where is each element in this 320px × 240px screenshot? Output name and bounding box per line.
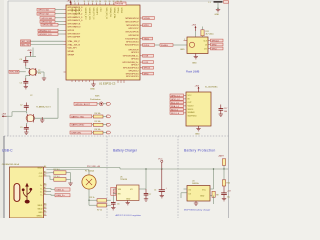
U4 left wire [181,189,187,198]
svg-text:GND: GND [215,14,220,16]
svg-text:WS2812_DI: WS2812_DI [39,31,51,33]
global label IO19 [143,61,154,64]
global label MTDI [143,24,152,27]
svg-text:LNA_IN: LNA_IN [78,8,81,15]
svg-text:R4 10k: R4 10k [95,113,101,115]
U5 internal pin names [118,189,133,201]
wires flash top [196,27,203,38]
resistor R10 far right [222,169,230,186]
svg-text:UART0_TXD: UART0_TXD [71,115,84,118]
global label SPID [143,72,154,75]
svg-text:GPIO18/USB_D-: GPIO18/USB_D- [123,56,139,58]
ground cap C8 [222,199,226,201]
global label RXD0 [143,44,155,47]
svg-text:32k: 32k [38,73,41,75]
capacitor C1 polarized [154,169,168,196]
svg-text:XL-1615RGBC: XL-1615RGBC [205,87,218,89]
svg-text:29: 29 [105,1,107,3]
svg-text:10u: 10u [227,197,230,199]
svg-text:SBU1: SBU1 [38,205,43,207]
svg-text:GND: GND [192,63,197,65]
svg-text:GPIO19/USB_D+: GPIO19/USB_D+ [122,62,139,64]
svg-text:U1 ESP32-C3: U1 ESP32-C3 [99,82,116,86]
wire VBUS rail top [47,168,229,170]
power +3V3 above crystal Y2 [27,50,32,57]
svg-text:SPIHD: SPIHD [68,51,75,53]
svg-text:GND: GND [180,49,185,51]
svg-text:A7: A7 [44,186,46,189]
svg-text:+3V3: +3V3 [27,50,31,52]
svg-text:SPICS0/GPIO14: SPICS0/GPIO14 [123,68,139,70]
J1 right pin stubs [44,168,47,216]
svg-text:GND: GND [126,198,131,200]
svg-text:GPIO9 / BOOT: GPIO9 / BOOT [75,104,90,106]
svg-text:Y1 ABM8-272-T3: Y1 ABM8-272-T3 [36,106,51,109]
ground under MCU [90,83,96,91]
svg-text:SPID: SPID [144,74,149,76]
svg-text:USB-C: USB-C [2,149,13,153]
svg-text:7: 7 [78,1,79,3]
ground under flash [192,54,198,65]
svg-text:SBU2: SBU2 [38,209,43,211]
ground under U4 [194,201,198,205]
global label U3 pin5 [170,108,184,111]
svg-text:+BATT: +BATT [218,155,225,158]
svg-text:C4: C4 [20,59,22,61]
power +3V3 above MCU [67,1,72,5]
global label MIC_SCK [21,40,64,43]
resistor R3 series [90,197,111,202]
svg-text:VDD3P3_CPU: VDD3P3_CPU [88,8,90,21]
svg-text:CC2: CC2 [39,176,43,178]
svg-text:GPIO3 / A3: GPIO3 / A3 [41,17,52,20]
svg-text:GPIO_L1: GPIO_L1 [171,95,181,97]
svg-text:1: 1 [184,39,185,41]
svg-text:RXD0: RXD0 [144,45,150,47]
sheet top border [8,0,229,2]
svg-text:R10: R10 [227,183,230,185]
resistor R4 row2 [93,115,106,118]
sheet margin strip [0,0,4,218]
svg-text:GPIO16: GPIO16 [131,59,139,61]
wire from L1 [217,3,218,9]
U3 left pin stubs [184,95,187,113]
svg-text:B7: B7 [44,193,46,195]
ground crystal Y2 [42,78,46,80]
svg-text:R9: R9 [216,194,218,196]
svg-text:21: 21 [96,1,98,3]
wires crystal Y1 [7,88,59,125]
pushbutton SW1 [99,102,106,106]
svg-text:17: 17 [88,1,90,3]
resistor R2 5k1 CC2 [47,176,67,181]
resistor R9 right of U4 [212,191,219,197]
global label WS2812_DO [38,33,64,36]
hierarchical arrow row4 [107,131,111,134]
resistor R5 row3 [93,123,106,126]
svg-text:GND: GND [90,88,95,90]
svg-text:Pushbutton: Pushbutton [90,98,101,101]
power VCC symbol [158,159,163,170]
MCU U1 top pin stubs [72,3,122,6]
svg-text:SPID: SPID [212,44,217,46]
global label USB_D+ [47,194,71,198]
ground cap C6 [111,208,115,210]
net label box above MCU right [115,2,126,6]
svg-text:SCL_L3: SCL_L3 [171,102,179,104]
fuse F1 [82,175,96,189]
svg-text:SDIO0: SDIO0 [188,109,194,111]
svg-text:GPIO13: GPIO13 [131,52,139,54]
regulator U5 reference text [120,177,128,182]
MCU U1 top internal pin names (vertical) [71,8,123,21]
svg-text:SPICS: SPICS [144,68,151,70]
resistor R1 5k1 CC1 [47,169,67,174]
svg-text:A6: A6 [44,182,46,185]
global label IO9 to flash [155,44,188,47]
svg-text:VDDA_PLL: VDDA_PLL [109,8,112,18]
global label GPIO5 [41,23,64,26]
U4 internal pin names [188,189,206,197]
svg-text:SPID/GPIO16: SPID/GPIO16 [126,73,140,75]
svg-text:B6: B6 [44,190,46,192]
svg-text:GPIO10/IO10: GPIO10/IO10 [126,42,139,44]
crystal Y2 32.768kHz [29,68,41,76]
svg-text:MTDI/GPIO5: MTDI/GPIO5 [126,25,139,27]
svg-text:GPIO8/IO8: GPIO8/IO8 [128,35,139,37]
MCU U1 left pin stubs [64,10,67,72]
U3 internal pin names [188,95,198,117]
MCU U1 right pin stubs [140,18,143,74]
MCU U1 ESP32-C3 body [66,5,140,80]
wire from vertical label down [112,195,114,202]
svg-text:Flash 16MB: Flash 16MB [186,71,200,74]
svg-text:A5: A5 [44,170,46,173]
svg-text:+3V3: +3V3 [2,114,6,116]
svg-text:C1: C1 [154,190,156,192]
svg-text:GPIO7/IO7: GPIO7/IO7 [128,28,139,30]
svg-text:MIC_SD: MIC_SD [22,45,30,47]
flash U2 left pin [184,39,188,41]
svg-text:VDD_SPI: VDD_SPI [68,48,77,50]
svg-text:VDD_RTC_IO: VDD_RTC_IO [92,8,94,20]
ground flash left [180,41,187,52]
resistor R6 row4 [93,131,106,134]
hierarchical arrow row3 [107,123,111,126]
svg-text:XIN_32K: XIN_32K [10,72,19,74]
global label GPIO2 [37,12,64,15]
flash U2 right pin stubs [208,41,211,49]
svg-text:XTAL_32K_P: XTAL_32K_P [68,40,81,43]
capacitor C17 [219,105,228,115]
svg-text:SPIQ: SPIQ [212,48,217,50]
power +3V3 left arrow (main crystal) [2,114,7,118]
svg-text:+C8: +C8 [227,191,231,193]
USB-C connector J1 body [10,167,44,218]
USB-C shell pill [14,184,20,202]
svg-text:GPIO9/IO9: GPIO9/IO9 [128,50,139,52]
svg-text:RXD0/GPIO20: RXD0/GPIO20 [125,45,139,47]
svg-text:SPIWP: SPIWP [68,54,75,56]
svg-text:18: 18 [92,1,94,3]
svg-text:C3: C3 [20,127,22,129]
global label IO18 [143,54,154,57]
svg-text:MTDO/GPIO7: MTDO/GPIO7 [125,21,139,23]
section divider vertical charger / protection [177,136,179,218]
J1 pin numbers [44,165,46,216]
svg-text:VCC: VCC [188,95,193,97]
global label GPIO4 [40,20,64,23]
crystal Y1 40MHz [26,95,50,122]
wire below fuse [88,189,97,205]
capacitor C6 under label [111,203,119,208]
global label SPICS [143,66,154,69]
svg-text:F1 750mA: F1 750mA [85,170,94,173]
wires CC resistors to ground [66,173,71,183]
global label SPID flash [211,43,224,46]
ground top right [215,10,221,17]
svg-text:DW01A: DW01A [192,182,199,185]
global label GPIO3 [40,17,64,20]
svg-text:Battery Protection: Battery Protection [184,149,215,153]
svg-text:MIC_SCK: MIC_SCK [22,41,32,43]
capacitor C5 (32k bottom) [20,78,29,87]
svg-text:GPIO9/BOOT: GPIO9/BOOT [68,33,82,35]
svg-text:GPIO2 / A2: GPIO2 / A2 [38,13,49,16]
svg-text:A4: A4 [44,165,46,168]
ground under U5 [126,201,130,205]
svg-text:GPIO1 / A1: GPIO1 / A1 [38,9,49,12]
MCU U1 top pin numbers [71,1,123,3]
ground cap C1 [160,196,164,198]
svg-text:SPIQ/IO12: SPIQ/IO12 [128,70,139,72]
svg-text:C17: C17 [224,108,227,110]
svg-text:GPIO10/FSPI: GPIO10/FSPI [68,37,81,39]
global label U3 pin2 [170,98,184,101]
svg-text:USB_D+: USB_D+ [56,195,65,197]
svg-text:SHELL: SHELL [37,215,43,217]
battery protection IC U4 body [187,186,210,202]
global label U3 pin6 [170,112,184,115]
regulator U5 body [117,185,140,201]
svg-text:VDDIO: VDDIO [188,105,195,107]
svg-text:R6 10k: R6 10k [95,129,101,131]
resistor R11 pullup [201,30,214,36]
svg-text:VDD_SPI_33: VDD_SPI_33 [105,8,107,19]
svg-text:MTMS: MTMS [144,18,151,20]
section divider horizontal [4,135,229,137]
svg-text:SPIVQ: SPIVQ [117,8,119,14]
svg-text:TXD0/GPIO21: TXD0/GPIO21 [125,38,139,40]
svg-text:B5: B5 [44,174,46,176]
sheet right border [228,1,230,218]
global label MIC_SD [21,43,64,46]
svg-text:VDD3P3_RTC: VDD3P3_RTC [84,8,86,21]
section border left (USB-C) [3,136,5,218]
svg-text:R5 10k: R5 10k [95,121,101,123]
svg-text:C6: C6 [117,204,119,206]
label right of L1 [224,1,229,4]
MCU U1 left-side internal pin names [68,6,84,56]
capacitor C7 right of U5 [144,189,152,199]
hierarchical arrow row1 [107,102,111,105]
svg-text:B8: B8 [44,207,46,209]
svg-text:11: 11 [84,1,86,3]
svg-text:MTDI: MTDI [144,25,150,27]
svg-text:C7: C7 [149,194,151,196]
svg-text:GPIO6/MTCK: GPIO6/MTCK [68,23,81,25]
sheet left border [7,1,9,136]
svg-text:GND: GND [38,212,43,214]
svg-text:SPICLK/IO15: SPICLK/IO15 [126,76,139,78]
junction rail x161.8 [161,168,162,169]
crystal Y2 32k label RTC [9,70,26,73]
wires crystal Y2 [26,48,44,79]
svg-text:SDI/PWLD: SDI/PWLD [188,116,198,118]
resistor R7 series [97,204,111,212]
RGB LED / IO IC U3 body [186,92,211,126]
svg-text:+3V3: +3V3 [192,25,196,27]
junction rail x146 [145,168,146,169]
junction rail x213.5 [213,168,214,169]
power +3V3 above flash [192,25,197,32]
svg-text:SDI/AFF: SDI/AFF [188,111,196,114]
wire stub bottom protection [196,196,214,205]
ground cap C7 [144,199,148,201]
global label RXD row3 [70,123,93,127]
global label U3 pin1 [170,94,184,97]
ground cap C5 [24,87,28,89]
ground under U3 [195,126,201,136]
global label EN row4 [70,131,93,135]
svg-text:TPS63S: TPS63S [120,179,128,181]
svg-text:+3V3: +3V3 [67,1,71,3]
svg-text:GPIO7/MTDO: GPIO7/MTDO [68,27,81,29]
svg-text:VDDA_XTAL: VDDA_XTAL [113,8,116,19]
U4 right wires [210,169,214,196]
global label U3 pin3 [170,101,184,104]
svg-text:GPIO5 / A5: GPIO5 / A5 [42,24,53,27]
global label USB_D- [47,188,71,192]
USB trident icon [22,183,32,204]
svg-text:4k7 (10k): 4k7 (10k) [206,33,214,35]
hierarchical arrow row2 [107,115,111,118]
svg-text:UART0_RXD: UART0_RXD [71,124,84,127]
U5 pin wires [113,169,146,194]
vertical net label VBUS [111,187,116,195]
global label GPIO_BOOT [74,102,99,106]
svg-text:VCC: VCC [158,159,163,161]
svg-text:AZ1117-3.3 LDO regulator: AZ1117-3.3 LDO regulator [116,214,142,217]
svg-text:MCP73831 battery charger: MCP73831 battery charger [184,209,211,212]
capacitor C4 (32k top) [20,57,29,67]
svg-text:Y2: Y2 [38,70,40,72]
svg-text:MTMS/GPIO4: MTMS/GPIO4 [125,18,139,20]
svg-text:VDD3P3: VDD3P3 [96,8,98,15]
svg-text:GPIO17: GPIO17 [131,65,139,67]
svg-text:R1 5k1: R1 5k1 [54,169,60,171]
svg-text:FLASH: FLASH [161,44,168,47]
svg-text:C2: C2 [30,95,32,97]
svg-text:VCC: VCC [202,189,207,191]
svg-text:GPIO_L2: GPIO_L2 [171,99,181,101]
svg-text:R7 1k: R7 1k [97,209,102,211]
ground crystal Y1 right [40,117,44,122]
global label U3 pin4 [170,105,184,108]
svg-text:SDI_L5: SDI_L5 [171,109,179,111]
svg-text:32: 32 [113,1,115,3]
svg-text:CHIP_EN: CHIP_EN [71,133,81,135]
svg-text:J1 USB4105-GF-A: J1 USB4105-GF-A [2,163,20,166]
svg-text:VBAT: VBAT [71,8,74,14]
svg-text:SDA_L4: SDA_L4 [171,105,180,108]
svg-text:VDDPST_1: VDDPST_1 [74,8,76,18]
svg-text:S1: S1 [44,214,46,216]
svg-text:SPICLK: SPICLK [212,40,220,42]
svg-text:XTAL_32K_N: XTAL_32K_N [68,43,81,46]
wire to fuse F1 [88,170,90,175]
svg-text:CPU: CPU [99,8,101,13]
global label TXD row2 [70,115,93,119]
svg-text:WS2812_DO: WS2812_DO [39,34,52,36]
svg-text:GND: GND [195,134,200,136]
svg-text:A8: A8 [44,202,46,205]
svg-text:104: 104 [224,111,227,113]
svg-text:26: 26 [99,1,101,3]
power +3V3 above U3 [195,85,200,92]
svg-text:CC1: CC1 [39,173,43,175]
svg-text:VBUS: VBUS [37,167,43,169]
svg-text:GPIO5/ADC2_0: GPIO5/ADC2_0 [68,19,84,22]
ground cap C17 [219,114,223,116]
ground cap C3 [24,132,28,134]
global label SPIQ flash [211,47,224,50]
svg-text:GND: GND [200,195,205,197]
ground CC resistors [68,183,72,185]
svg-text:R2 5k1: R2 5k1 [54,176,60,178]
svg-text:GPIO8: GPIO8 [68,30,75,32]
junction rail x224 [223,168,224,169]
svg-text:5: 5 [74,1,75,3]
J1 internal pin names [37,167,44,217]
resistor R8 above rail right [218,155,226,170]
charger U4 reference text [192,180,199,185]
capacitor C8 far right polarized [221,186,231,199]
capacitor C2 (main xtal top) [20,103,29,111]
svg-text:31: 31 [109,1,111,3]
svg-text:R3 1k: R3 1k [90,197,95,199]
inductor L1 top right [209,1,223,4]
svg-text:A1: A1 [44,209,46,212]
MCU U1 right-side internal pin names [122,18,139,78]
svg-text:USB_D-: USB_D- [56,190,64,192]
global label TXD0 [143,37,153,40]
section divider vertical USB-C / charger [106,136,108,218]
svg-text:TXD0: TXD0 [144,39,150,41]
svg-text:+3V3: +3V3 [195,85,199,87]
global label MTMS [143,17,155,20]
flash U2 symbol circle [189,42,194,47]
capacitor C3 (main xtal bottom) [20,125,29,133]
global label SPICLK [211,39,224,42]
svg-text:C2: C2 [20,105,22,107]
svg-text:Battery Charger: Battery Charger [113,149,138,153]
svg-text:MTCK/GPIO6: MTCK/GPIO6 [126,32,140,34]
global label WS2812_DI [38,29,64,32]
flash U2 body [187,37,208,54]
svg-text:SPIVD: SPIVD [120,8,122,14]
svg-text:SDO_L6: SDO_L6 [171,113,180,115]
